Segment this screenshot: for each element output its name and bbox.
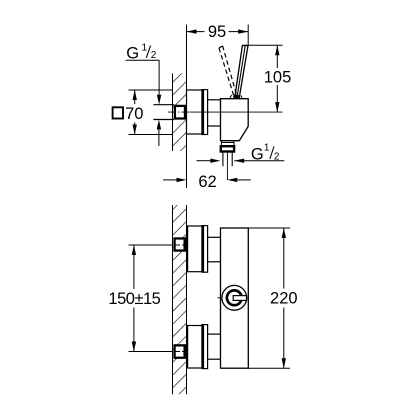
dimension 105 [244, 45, 291, 112]
dimension 150±15 [108, 245, 160, 352]
dimension 62 [163, 173, 251, 191]
top union nut [175, 238, 185, 250]
bottom nut centerline [174, 351, 187, 353]
plate thick divider [202, 90, 208, 135]
bottom union nut [175, 345, 185, 357]
svg-text:70: 70 [125, 105, 143, 123]
svg-text:2: 2 [151, 50, 157, 61]
wall hatch (top view) [173, 74, 187, 152]
lever (dashed alternate position) [219, 48, 234, 95]
GROHE logo [222, 285, 247, 310]
center tick at body left edge [218, 297, 223, 299]
svg-text:220: 220 [270, 290, 298, 308]
inlet centerline [168, 111, 190, 113]
wall face line (bottom view) [186, 205, 188, 394]
svg-text:1: 1 [142, 42, 148, 53]
connector between plate and body [208, 99, 221, 101]
bottom connection pipe [208, 333, 221, 335]
dimension 220 [248, 228, 297, 368]
top escutcheon [188, 226, 202, 272]
G 1/2 label (top left) [126, 42, 162, 146]
wall face line (top view, also extension line for 95 and 62) [186, 25, 188, 189]
wall left line (bottom view) [172, 205, 174, 394]
faucet body (side) [221, 99, 249, 141]
svg-text:1: 1 [264, 142, 270, 153]
hose centerline [226, 152, 228, 180]
G 1/2 label (bottom right, hose thread) [197, 142, 285, 163]
wall left line (top view) [172, 74, 174, 152]
svg-text:105: 105 [264, 68, 292, 86]
wall plate (escutcheon 70x70) [187, 90, 203, 134]
top S-union centerline / 150 extension top [129, 244, 174, 246]
top connection pipe [208, 236, 221, 238]
svg-text:150±15: 150±15 [108, 290, 160, 308]
outlet neck [221, 141, 223, 143]
body (bottom view) [221, 228, 249, 368]
hose cone [222, 152, 224, 166]
top nut centerline [174, 244, 187, 246]
dimension 95 [187, 23, 249, 45]
wall hatch (bottom view) [173, 205, 187, 394]
lever base knot [233, 94, 240, 99]
lever base sides [230, 95, 232, 98]
svg-text:62: 62 [198, 173, 216, 191]
outlet nut (dark) [221, 146, 234, 151]
bottom escutcheon [188, 326, 202, 369]
inlet pipe [153, 104, 174, 106]
lever (solid position) [235, 45, 248, 97]
outlet collar [221, 143, 234, 146]
bottom S-union centerline / 150 extension bottom [129, 351, 174, 353]
svg-text:95: 95 [208, 23, 226, 41]
dimension 70 with square symbol [113, 90, 173, 135]
inlet union nut [175, 106, 185, 119]
